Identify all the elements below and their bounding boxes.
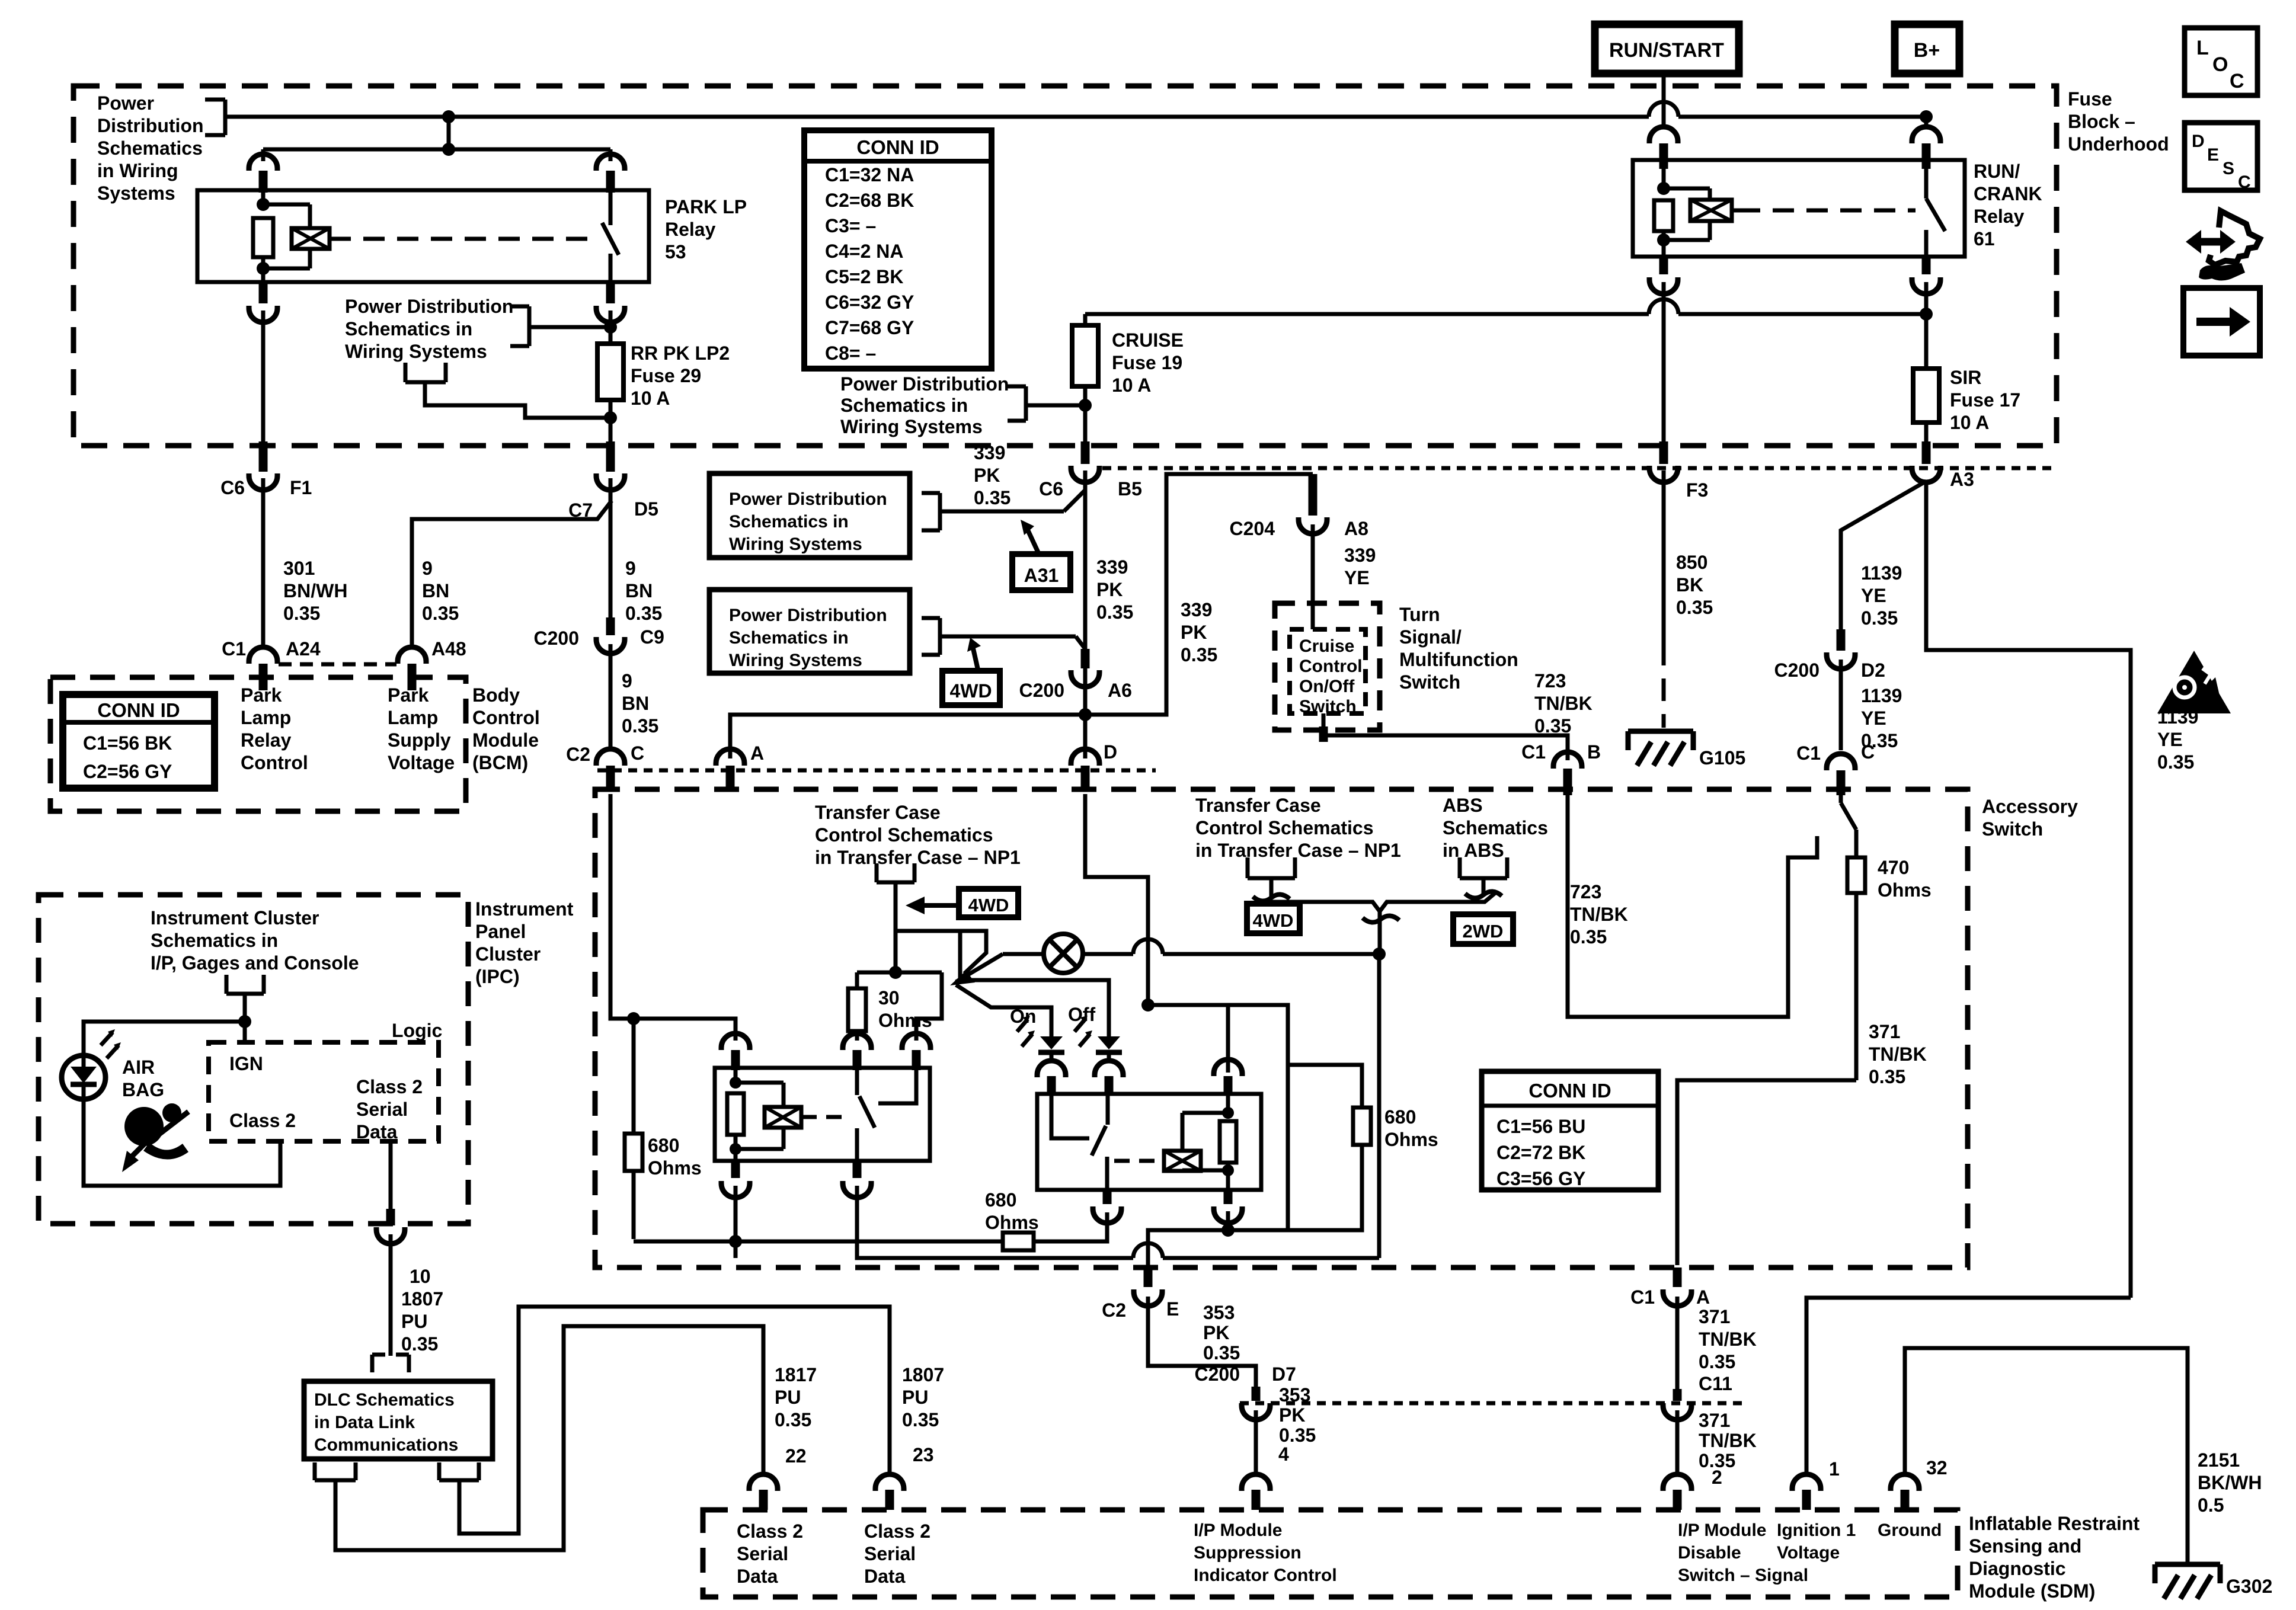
svg-text:Power Distribution: Power Distribution <box>729 606 887 625</box>
label 1807 PU 0.35 (pin23) <box>902 1364 944 1430</box>
svg-text:BN: BN <box>422 580 449 601</box>
svg-text:A3: A3 <box>1950 469 1974 490</box>
label C200 (D7) <box>1195 1363 1240 1385</box>
label Class 2 Serial Data (pin23) <box>864 1521 930 1587</box>
svg-text:Fuse: Fuse <box>2068 88 2112 110</box>
svg-text:Power Distribution: Power Distribution <box>729 489 887 509</box>
wire 9 BN D5 branch to A48 <box>412 501 612 647</box>
label 339 PK 0.35 (left of C6/B5) <box>974 442 1011 508</box>
bracket of boxed label 1 <box>922 490 1085 530</box>
reference box 4WD with arrow (near C200 A6) <box>942 638 1000 705</box>
svg-text:C2: C2 <box>1102 1299 1126 1321</box>
label Power Distribution Schematics in Wiring Systems (c) <box>840 373 1009 437</box>
fuse block - underhood dashed outline <box>73 86 2057 446</box>
svg-text:2WD: 2WD <box>1463 921 1504 942</box>
label C2 (E) <box>1102 1299 1126 1321</box>
svg-text:0.35: 0.35 <box>1181 644 1217 665</box>
svg-text:C1=56 BK: C1=56 BK <box>83 732 172 754</box>
label 22 <box>785 1445 807 1467</box>
svg-text:Relay: Relay <box>665 219 716 240</box>
svg-text:53: 53 <box>665 241 686 263</box>
svg-text:G105: G105 <box>1699 747 1745 769</box>
label 470 Ohms <box>1878 857 1932 901</box>
svg-text:23: 23 <box>913 1444 934 1465</box>
label 680 Ohms (left) <box>648 1135 702 1179</box>
svg-text:D: D <box>1104 741 1117 763</box>
connector run/crank coil bottom <box>1649 257 1678 294</box>
wire 9 BN D5 to C9 <box>609 478 613 617</box>
svg-text:0.35: 0.35 <box>283 603 320 624</box>
svg-text:A: A <box>1696 1286 1710 1308</box>
wire off-led branch <box>960 931 1109 1036</box>
label C (acc) <box>1861 741 1875 763</box>
fuse SIR Fuse 17 10A <box>1913 369 1939 422</box>
label B5 <box>1118 478 1142 500</box>
icon forward arrow box <box>2183 288 2260 356</box>
svg-text:Ohms: Ohms <box>985 1212 1039 1233</box>
svg-text:PU: PU <box>902 1387 928 1408</box>
label Instrument Panel Cluster (IPC) <box>475 898 574 987</box>
connector run/crank switch bottom <box>1912 257 1940 294</box>
svg-text:1139: 1139 <box>1861 685 1902 706</box>
label Turn Signal Multifunction Switch <box>1399 604 1518 693</box>
bracket below TC label right <box>1248 857 1295 897</box>
svg-text:0.35: 0.35 <box>625 603 662 624</box>
wire 1807 DLC to SDM pin23 <box>459 1307 890 1534</box>
svg-text:0.35: 0.35 <box>1534 715 1571 737</box>
svg-text:Supply: Supply <box>388 729 451 751</box>
svg-text:Communications: Communications <box>314 1435 458 1455</box>
wire 371 C1/A to C11 <box>1675 1297 1680 1389</box>
run/crank relay coil resistor <box>1654 169 1673 257</box>
svg-text:Sensing and: Sensing and <box>1969 1535 2081 1557</box>
icon service glyph <box>2186 211 2260 281</box>
junction 680 ohm tap <box>627 1012 640 1025</box>
label AIR BAG <box>122 1057 164 1100</box>
ground G105 <box>1628 731 1693 766</box>
svg-text:C2: C2 <box>566 744 590 765</box>
svg-text:D2: D2 <box>1861 660 1885 681</box>
wire A8 into cruise switch <box>1311 524 1315 629</box>
label 680 Ohms (middle) <box>985 1189 1039 1233</box>
wire B+ switch leg to SIR fuse <box>1920 282 1933 369</box>
svg-text:PU: PU <box>401 1311 427 1332</box>
label On <box>1010 1006 1036 1027</box>
svg-text:32: 32 <box>1926 1457 1948 1478</box>
B+ feed box <box>1895 24 1959 73</box>
svg-text:Schematics in: Schematics in <box>729 512 849 532</box>
connector row dotted line y790 <box>1102 466 2057 470</box>
svg-text:C200: C200 <box>1019 680 1065 701</box>
svg-text:C2=72 BK: C2=72 BK <box>1496 1142 1585 1163</box>
connector C200/C9 <box>596 617 625 654</box>
module Instrument Panel Cluster dashed box <box>39 895 468 1224</box>
svg-text:Schematics in: Schematics in <box>840 395 968 416</box>
wire A pin feed <box>730 715 1085 758</box>
switch Cruise Control On/Off inner dashed box <box>1290 629 1366 713</box>
connector C11 <box>1663 1389 1691 1420</box>
svg-text:Ohms: Ohms <box>648 1157 702 1179</box>
wire left relay coil bottom to bus <box>729 1186 742 1258</box>
label Ignition 1 Voltage <box>1777 1521 1856 1563</box>
connector On LED <box>1037 1061 1066 1095</box>
connector left relay mid top <box>843 1033 871 1070</box>
svg-text:371: 371 <box>1869 1021 1900 1042</box>
label 371 TN/BK 0.35 (inside acc) <box>1869 1021 1927 1087</box>
right relay switch <box>1092 1094 1108 1190</box>
svg-text:371: 371 <box>1699 1306 1730 1327</box>
svg-text:Schematics in: Schematics in <box>151 930 278 951</box>
svg-text:0.35: 0.35 <box>1279 1425 1316 1446</box>
svg-text:F1: F1 <box>290 477 312 498</box>
svg-text:O: O <box>2212 53 2228 76</box>
wire 1139 to SDM pin1 <box>1806 1298 2131 1475</box>
svg-text:Lamp: Lamp <box>388 707 438 728</box>
fuse CRUISE Fuse 19 10A <box>1072 325 1098 386</box>
label PARK LP Relay 53 <box>665 196 747 263</box>
svg-text:A31: A31 <box>1024 565 1059 586</box>
fuse RR PK LP2 Fuse 29 10A <box>597 344 623 400</box>
connector SDM pin 22 <box>749 1474 778 1510</box>
label G302 <box>2226 1576 2272 1597</box>
wire 1807 to DLC bracket <box>389 1234 393 1356</box>
svg-text:TN/BK: TN/BK <box>1699 1329 1757 1350</box>
svg-text:Block –: Block – <box>2068 111 2135 132</box>
wire 339 PK node to cruise riser <box>1085 474 1313 715</box>
bracket for label c <box>1008 386 1085 421</box>
connector C1/B accessory <box>1553 752 1582 795</box>
connector D accessory <box>1071 749 1099 792</box>
svg-text:Power: Power <box>97 92 154 114</box>
svg-text:Data: Data <box>864 1566 906 1587</box>
svg-text:0.35: 0.35 <box>1869 1066 1905 1087</box>
svg-text:BN: BN <box>625 580 653 601</box>
label 371 TN/BK 0.35 (upper right) <box>1699 1306 1757 1372</box>
label A8 <box>1344 518 1368 539</box>
svg-text:Data: Data <box>737 1566 778 1587</box>
label 9 BN 0.35 (D5-C9 wire) <box>625 558 662 624</box>
relay transfer-case select relay box (left) <box>715 1068 930 1161</box>
right relay internal on-pin link <box>1051 1094 1089 1138</box>
svg-text:C200: C200 <box>1774 660 1820 681</box>
svg-text:0.35: 0.35 <box>1570 926 1607 948</box>
label 353 PK 0.35 4 <box>1278 1384 1316 1465</box>
reference box A31 with arrow <box>1012 520 1070 590</box>
svg-text:0.35: 0.35 <box>1096 601 1133 623</box>
svg-text:in Wiring: in Wiring <box>97 160 178 181</box>
svg-text:C7=68 GY: C7=68 GY <box>825 317 914 338</box>
svg-text:C4=2 NA: C4=2 NA <box>825 241 904 262</box>
svg-text:CRUISE: CRUISE <box>1112 329 1184 351</box>
svg-text:PK: PK <box>1181 622 1207 643</box>
connector SDM pin 2 <box>1663 1474 1691 1510</box>
svg-text:C5=2 BK: C5=2 BK <box>825 266 904 287</box>
svg-text:RUN/: RUN/ <box>1974 161 2020 182</box>
svg-text:BN: BN <box>622 693 649 714</box>
label I/P Module Disable Switch - Signal <box>1678 1521 1808 1585</box>
connector F3 <box>1649 441 1678 482</box>
label 2151 BK/WH 0.5 <box>2198 1449 2262 1516</box>
svg-text:Turn: Turn <box>1399 604 1440 625</box>
svg-text:0.35: 0.35 <box>422 603 459 624</box>
svg-text:BK: BK <box>1676 574 1703 596</box>
wire cruise fuse to B5 <box>1079 386 1092 441</box>
svg-text:I/P Module: I/P Module <box>1194 1521 1282 1540</box>
label 9 BN 0.35 (below C9) <box>622 670 658 737</box>
label Park Lamp Relay Control <box>241 684 308 773</box>
svg-text:Control Schematics: Control Schematics <box>815 824 993 846</box>
svg-text:C1: C1 <box>1630 1286 1655 1308</box>
junction 4WD at 30 ohm bus <box>857 966 942 979</box>
svg-text:C200: C200 <box>1195 1363 1240 1385</box>
label Power Distribution Schematics in Wiring Systems (b) <box>345 296 513 362</box>
svg-text:in Data Link: in Data Link <box>314 1413 415 1432</box>
svg-text:C: C <box>2238 172 2251 192</box>
connector run/crank switch pin (B+) <box>1912 121 1940 169</box>
run/crank relay switch <box>1926 169 1945 257</box>
label 723 TN/BK 0.35 (lower) <box>1570 881 1628 948</box>
svg-text:Cluster: Cluster <box>475 943 541 965</box>
svg-text:C6: C6 <box>220 477 245 498</box>
label C (acc left) <box>631 742 644 764</box>
label ABS Schematics in ABS <box>1443 795 1548 861</box>
svg-text:Serial: Serial <box>356 1099 408 1120</box>
label Power Distribution Schematics in Wiring Systems (top-left) <box>97 92 204 204</box>
left relay switch <box>857 1070 875 1161</box>
svg-text:CONN ID: CONN ID <box>856 136 939 158</box>
svg-text:Signal/: Signal/ <box>1399 626 1462 648</box>
svg-text:Module (SDM): Module (SDM) <box>1969 1580 2095 1602</box>
right relay solenoid winding <box>1164 1113 1228 1171</box>
connector C6/B5 <box>1071 441 1099 482</box>
svg-text:SIR: SIR <box>1950 367 1981 388</box>
connector IPC class2 out <box>376 1209 405 1244</box>
label Park Lamp Supply Voltage <box>388 684 455 773</box>
park relay coil resistor <box>253 193 273 282</box>
connector C1/A24 into BCM <box>249 647 277 690</box>
svg-text:RR PK LP2: RR PK LP2 <box>631 343 730 364</box>
svg-text:4WD: 4WD <box>968 895 1009 916</box>
label C6 (B5) <box>1039 478 1063 500</box>
label F3 <box>1686 479 1708 501</box>
svg-text:Instrument Cluster: Instrument Cluster <box>151 907 319 929</box>
connector left relay switch bottom <box>843 1161 871 1198</box>
svg-text:Indicator Control: Indicator Control <box>1194 1566 1337 1585</box>
svg-text:PU: PU <box>775 1387 801 1408</box>
relay PARK LP Relay 53 box <box>197 190 649 282</box>
svg-text:D5: D5 <box>634 498 658 520</box>
connector C1/C accessory switch <box>1827 754 1855 795</box>
svg-text:1: 1 <box>1829 1458 1840 1480</box>
wire fuse 29 to C7 connector <box>604 400 617 441</box>
svg-text:0.35: 0.35 <box>775 1409 811 1430</box>
splice squiggle merge drop <box>1363 916 1399 922</box>
connector right relay coil bottom <box>1214 1190 1242 1223</box>
svg-text:F3: F3 <box>1686 479 1708 501</box>
svg-text:Ohms: Ohms <box>1384 1129 1438 1150</box>
wire 371 C11 to SDM pin2 <box>1675 1410 1680 1475</box>
svg-text:Voltage: Voltage <box>1777 1543 1840 1563</box>
svg-text:0.35: 0.35 <box>1203 1342 1240 1363</box>
svg-text:339: 339 <box>1096 556 1128 578</box>
connector SDM pin 1 <box>1792 1474 1821 1510</box>
connector C6/F1 <box>249 441 277 490</box>
svg-text:L: L <box>2196 37 2209 59</box>
svg-text:C: C <box>2230 70 2244 92</box>
svg-text:PK: PK <box>974 465 1000 486</box>
svg-text:C2=56 GY: C2=56 GY <box>83 761 172 782</box>
icon DESC box <box>2185 123 2257 192</box>
hop of cruise feed over F3 wire <box>1649 299 1678 314</box>
svg-text:YE: YE <box>1861 585 1886 606</box>
run/crank relay actuation dashed link <box>1732 209 1916 213</box>
svg-text:YE: YE <box>1861 708 1886 729</box>
wire 1139 YE A3 to C200 D2 (diagonal) <box>1841 481 1926 629</box>
box DLC Schematics in Data Link Communications <box>304 1381 493 1459</box>
svg-text:CONN ID: CONN ID <box>97 699 180 721</box>
connector row dotted line y2368 <box>1240 1401 1742 1406</box>
svg-text:Ignition 1: Ignition 1 <box>1777 1521 1856 1540</box>
wire 30ohm bus to relay right pin <box>916 972 942 1041</box>
wire air bag return to class2 pin <box>84 1099 280 1186</box>
svg-text:Underhood: Underhood <box>2068 133 2169 155</box>
wire to air bag led <box>84 1022 245 1056</box>
svg-text:I/P Module: I/P Module <box>1678 1521 1766 1540</box>
connector A accessory <box>716 749 744 792</box>
park relay solenoid winding <box>263 204 330 268</box>
svg-text:B: B <box>1587 741 1601 763</box>
svg-text:0.35: 0.35 <box>401 1333 438 1355</box>
boxed label Power Distribution Schematics in Wiring Systems 2 <box>709 590 910 673</box>
bracket below TC label left <box>877 863 914 882</box>
svg-text:Fuse 19: Fuse 19 <box>1112 352 1182 373</box>
svg-text:Voltage: Voltage <box>388 752 455 773</box>
label C1 (A24) <box>222 638 246 660</box>
label A3 <box>1950 469 1974 490</box>
svg-text:in Transfer Case – NP1: in Transfer Case – NP1 <box>1195 840 1401 861</box>
svg-text:Serial: Serial <box>864 1543 916 1564</box>
svg-text:Park: Park <box>241 684 282 706</box>
connector C7/D5 <box>596 441 625 490</box>
label Fuse Block - Underhood <box>2068 88 2169 155</box>
label 30 Ohms <box>878 987 932 1031</box>
connector Off LED <box>1095 1061 1123 1095</box>
wire C pin to left relay coil <box>610 794 736 1041</box>
svg-text:C3= –: C3= – <box>825 215 876 236</box>
svg-text:10 A: 10 A <box>631 388 670 409</box>
relay transfer-case indicator relay box (right) <box>1037 1094 1261 1190</box>
svg-text:C3=56 GY: C3=56 GY <box>1496 1168 1585 1189</box>
svg-text:Control: Control <box>1299 657 1363 676</box>
label 339 YE <box>1344 545 1376 588</box>
junction IPC ign split <box>238 1015 251 1028</box>
svg-text:1139: 1139 <box>1861 562 1902 584</box>
svg-text:Body: Body <box>472 684 520 706</box>
label Body Control Module (BCM) <box>472 684 540 773</box>
bracket right of label b <box>510 306 612 346</box>
boxed label Power Distribution Schematics in Wiring Systems 1 <box>709 473 910 558</box>
module SDM dashed box <box>703 1510 1958 1597</box>
label I/P Module Suppression Indicator Control <box>1194 1521 1337 1585</box>
svg-text:Power Distribution: Power Distribution <box>345 296 513 317</box>
wire indicator return bus y2123 <box>857 958 1379 1258</box>
label Logic <box>392 1020 442 1041</box>
svg-text:BN/WH: BN/WH <box>283 580 347 601</box>
svg-text:Control: Control <box>472 707 540 728</box>
svg-text:TN/BK: TN/BK <box>1534 693 1593 714</box>
left relay solenoid winding <box>736 1083 801 1149</box>
svg-text:TN/BK: TN/BK <box>1869 1044 1927 1065</box>
connector left relay coil top <box>721 1033 750 1070</box>
svg-text:Instrument: Instrument <box>475 898 574 920</box>
wire D riser to coil net <box>1085 794 1148 1005</box>
wire 4WD signal from TC bracket <box>894 882 898 972</box>
wire 371 to C1/A pin <box>1677 1080 1856 1265</box>
LED AIR BAG telltale <box>62 1029 121 1099</box>
wire main B+ bus y197 <box>225 115 1926 119</box>
svg-text:C6: C6 <box>1039 478 1063 500</box>
svg-text:C1: C1 <box>1521 741 1546 763</box>
wire A3 to right margin riser 1139 <box>1926 481 2131 1298</box>
label 301 BN/WH 0.35 <box>283 558 347 624</box>
connector C200/D2 <box>1827 629 1855 669</box>
wire 339 PK B5 down to junction <box>1083 470 1088 715</box>
wire 1817 DLC to SDM pin22 <box>335 1326 763 1550</box>
svg-text:G302: G302 <box>2226 1576 2272 1597</box>
svg-text:Cruise: Cruise <box>1299 636 1354 656</box>
svg-text:A6: A6 <box>1108 680 1132 701</box>
RUN/START feed box <box>1595 24 1739 73</box>
svg-text:in Transfer Case – NP1: in Transfer Case – NP1 <box>815 847 1021 868</box>
wire 339 PK A6 to distribution node <box>1079 677 1092 721</box>
svg-text:4: 4 <box>1278 1443 1289 1465</box>
junction lamp to 2WD/4WD stem <box>1373 948 1386 961</box>
run/crank relay solenoid winding <box>1664 188 1732 240</box>
svg-text:Fuse 29: Fuse 29 <box>631 365 701 386</box>
label Instrument Cluster Schematics in I/P Gages and Console <box>151 907 359 974</box>
label IGN <box>229 1053 263 1074</box>
wire class2 serial data out of IPC <box>389 1141 393 1209</box>
svg-text:353: 353 <box>1279 1384 1310 1406</box>
svg-text:1807: 1807 <box>401 1288 443 1310</box>
svg-text:0.5: 0.5 <box>2198 1494 2224 1516</box>
bracket of boxed label 2 <box>922 618 1085 655</box>
resistor 30 Ohms <box>848 972 866 1041</box>
svg-text:A8: A8 <box>1344 518 1368 539</box>
svg-text:Distribution: Distribution <box>97 115 204 136</box>
svg-text:E: E <box>2207 145 2219 165</box>
svg-text:22: 22 <box>785 1445 807 1467</box>
connector SDM pin 23 <box>875 1474 904 1510</box>
relay RUN/CRANK Relay 61 box <box>1633 160 1965 257</box>
label 353 PK 0.35 (upper) <box>1203 1302 1240 1363</box>
svg-text:Control Schematics: Control Schematics <box>1195 817 1374 838</box>
svg-text:680: 680 <box>648 1135 679 1156</box>
svg-text:339: 339 <box>1181 599 1212 620</box>
label 1817 PU 0.35 <box>775 1364 817 1430</box>
svg-text:PK: PK <box>1203 1322 1229 1343</box>
svg-text:339: 339 <box>974 442 1005 463</box>
accessory switch blade and 470 ohm <box>1841 794 1856 857</box>
label A48 <box>431 638 466 660</box>
label 1139 YE 0.35 (right margin) <box>2157 706 2198 773</box>
svg-text:C9: C9 <box>640 626 664 648</box>
svg-text:Transfer Case: Transfer Case <box>1195 795 1321 816</box>
label 850 BK 0.35 <box>1676 552 1713 618</box>
label Transfer Case Control Schematics NP1 (left) <box>815 802 1021 868</box>
svg-text:B+: B+ <box>1914 39 1940 62</box>
svg-text:Disable: Disable <box>1678 1543 1741 1563</box>
